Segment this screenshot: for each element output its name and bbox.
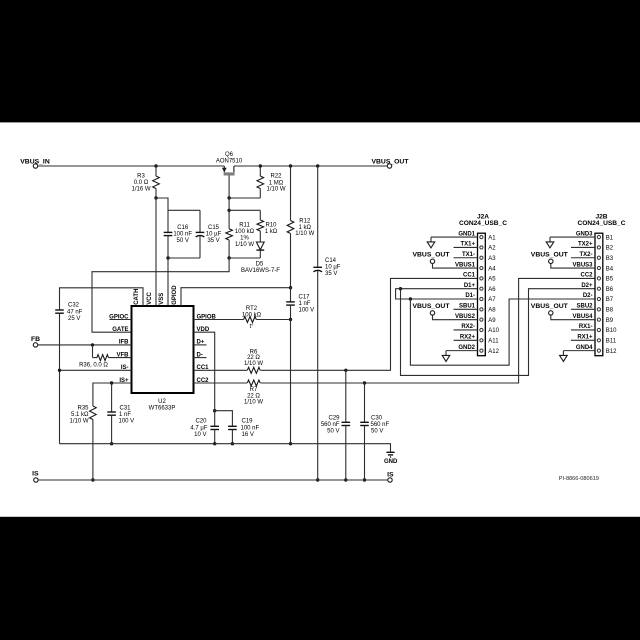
pin B7 of J2B xyxy=(597,297,600,300)
wire D- stub xyxy=(194,357,207,359)
pin A5 of J2A xyxy=(480,277,483,280)
wire VBUS2 xyxy=(433,315,478,320)
junction C17-RT2 xyxy=(289,318,292,321)
junction R35-IS rail xyxy=(91,478,94,481)
svg-text:GND1: GND1 xyxy=(458,231,475,237)
pin B3 of J2B xyxy=(597,256,600,259)
svg-text:TX2-: TX2- xyxy=(579,252,592,258)
svg-text:10 µF: 10 µF xyxy=(325,265,341,271)
junction CC1-C29 xyxy=(344,369,347,372)
svg-text:GND2: GND2 xyxy=(458,345,475,351)
svg-text:R11: R11 xyxy=(239,223,250,229)
svg-text:B2: B2 xyxy=(606,246,614,252)
svg-text:1 kΩ: 1 kΩ xyxy=(299,225,312,231)
pin A2 of J2A xyxy=(480,246,483,249)
svg-text:R22: R22 xyxy=(270,173,282,179)
svg-text:VBUS_OUT: VBUS_OUT xyxy=(412,251,450,258)
pin A9 of J2A xyxy=(480,318,483,321)
svg-text:1%: 1% xyxy=(240,236,249,242)
svg-text:IS: IS xyxy=(32,471,39,478)
svg-text:VBUS_OUT: VBUS_OUT xyxy=(531,303,569,310)
wire R10 branch top xyxy=(229,209,260,211)
svg-text:PI-8866-080619: PI-8866-080619 xyxy=(559,476,599,482)
wire R22 bottom to gate line xyxy=(229,197,260,199)
pin B12 of J2B xyxy=(597,349,600,352)
svg-text:B9: B9 xyxy=(606,318,614,324)
svg-text:1/10 W: 1/10 W xyxy=(266,186,285,192)
svg-text:1/10 W: 1/10 W xyxy=(235,242,254,248)
svg-text:CON24_USB_C: CON24_USB_C xyxy=(459,220,507,227)
wire Q6 gate stub xyxy=(228,176,230,199)
junction gate-R22 xyxy=(227,196,230,199)
junction FB-R36 xyxy=(91,343,94,346)
svg-text:GND: GND xyxy=(384,459,398,465)
svg-text:CON24_USB_C: CON24_USB_C xyxy=(577,220,625,227)
svg-text:R12: R12 xyxy=(299,218,311,224)
wire VSS line xyxy=(167,258,169,306)
pin B4 of J2B xyxy=(597,266,600,269)
svg-text:50 V: 50 V xyxy=(177,238,189,244)
svg-text:D2-: D2- xyxy=(583,293,593,299)
svg-text:R10: R10 xyxy=(265,223,277,229)
svg-text:VBUS1: VBUS1 xyxy=(455,262,476,268)
wire GND2 to ground xyxy=(446,350,478,352)
svg-text:B11: B11 xyxy=(606,339,617,345)
svg-text:D1-: D1- xyxy=(465,293,475,299)
svg-text:RX2-: RX2- xyxy=(461,324,475,330)
transistor Q6 xyxy=(223,166,225,172)
wire VBUS3 xyxy=(551,263,595,268)
wire VBUS_OUT rail xyxy=(234,165,387,167)
svg-text:U2: U2 xyxy=(158,399,166,405)
svg-text:A7: A7 xyxy=(488,297,496,303)
pin B5 of J2B xyxy=(597,277,600,280)
wire IS+ line xyxy=(93,383,132,404)
svg-text:B12: B12 xyxy=(606,349,617,355)
svg-text:560 nF: 560 nF xyxy=(321,422,340,428)
svg-text:VBUS3: VBUS3 xyxy=(572,262,593,268)
svg-text:BAV16WS-7-F: BAV16WS-7-F xyxy=(241,268,280,274)
junction rail-C14 xyxy=(316,164,319,167)
svg-text:GND4: GND4 xyxy=(576,345,593,351)
svg-text:t°: t° xyxy=(249,324,254,330)
pin A11 of J2A xyxy=(480,339,483,342)
wire stub TX1- xyxy=(454,257,478,259)
wire stub TX1+ xyxy=(454,246,478,248)
junction gate-R10 top xyxy=(227,209,230,212)
svg-text:C32: C32 xyxy=(68,303,80,309)
pin A10 of J2A xyxy=(480,328,483,331)
pin A4 of J2A xyxy=(480,266,483,269)
svg-text:B7: B7 xyxy=(606,297,614,303)
svg-text:16 V: 16 V xyxy=(242,432,254,438)
wire CC2 route to J2B xyxy=(261,278,596,383)
svg-text:1/16 W: 1/16 W xyxy=(131,187,150,193)
pin B10 of J2B xyxy=(597,328,600,331)
wire D1- to J2A A7 xyxy=(410,298,477,300)
wire stub RX1+ xyxy=(571,339,595,341)
wire D5 bottom to gate line xyxy=(229,257,260,259)
svg-text:10 V: 10 V xyxy=(194,432,206,438)
svg-text:5.1 kΩ: 5.1 kΩ xyxy=(71,412,89,418)
pin A6 of J2A xyxy=(480,287,483,290)
svg-text:R7: R7 xyxy=(250,387,258,393)
connector J2A CON24_USB_C body xyxy=(478,233,486,356)
svg-text:R3: R3 xyxy=(137,174,145,180)
svg-text:D2+: D2+ xyxy=(581,283,593,289)
svg-text:GND3: GND3 xyxy=(576,231,593,237)
junction rail-R3 xyxy=(154,164,157,167)
svg-text:C29: C29 xyxy=(328,415,340,421)
junction C14-IS rail xyxy=(316,478,319,481)
pin B9 of J2B xyxy=(597,318,600,321)
svg-text:A11: A11 xyxy=(488,339,499,345)
wire GPIOC stub xyxy=(109,319,131,321)
svg-text:100 nF: 100 nF xyxy=(241,425,260,431)
svg-text:100 nF: 100 nF xyxy=(173,232,192,238)
junction C31-GND rail xyxy=(110,442,113,445)
pin B8 of J2B xyxy=(597,308,600,311)
wire stub RX2+ xyxy=(454,339,478,341)
svg-text:A5: A5 xyxy=(488,277,496,283)
svg-text:AON7510: AON7510 xyxy=(216,159,243,165)
svg-text:C20: C20 xyxy=(195,419,207,425)
svg-text:TX1-: TX1- xyxy=(462,252,475,258)
ground arrow GND1 xyxy=(430,237,432,242)
wire FB to IFB xyxy=(38,344,132,346)
wire stub SBU2 xyxy=(571,308,595,310)
svg-text:TX2+: TX2+ xyxy=(578,242,593,248)
svg-text:SBU1: SBU1 xyxy=(459,304,476,310)
svg-text:A6: A6 xyxy=(488,287,496,293)
ground arrow GND3 xyxy=(549,237,551,242)
wire GPIOD route xyxy=(181,288,291,306)
svg-text:1 nF: 1 nF xyxy=(299,301,311,307)
junction rail-R12 xyxy=(289,164,292,167)
svg-text:50 V: 50 V xyxy=(327,428,339,434)
pin A3 of J2A xyxy=(480,256,483,259)
wire IS rail xyxy=(38,479,388,481)
svg-text:25 V: 25 V xyxy=(68,316,80,322)
svg-text:RX2+: RX2+ xyxy=(460,335,476,341)
diode D5 xyxy=(256,242,264,250)
ground arrow GND2 xyxy=(445,351,447,356)
svg-text:4.7 µF: 4.7 µF xyxy=(190,425,207,431)
ground arrow GND4 xyxy=(562,351,564,356)
wire gate line to U2 GATE xyxy=(92,258,229,332)
svg-text:1/10 W: 1/10 W xyxy=(295,231,314,237)
svg-text:B5: B5 xyxy=(606,277,614,283)
junction VDD-C20 xyxy=(213,409,216,412)
svg-text:FB: FB xyxy=(31,336,40,343)
svg-text:C31: C31 xyxy=(120,405,132,411)
junction C20-GND rail xyxy=(213,442,216,445)
svg-text:C17: C17 xyxy=(299,294,311,300)
wire D1+ to D2+ crosslink xyxy=(401,289,596,376)
junction D1- drop xyxy=(409,297,412,300)
wire VBUS1 xyxy=(433,263,478,268)
pin A7 of J2A xyxy=(480,297,483,300)
junction C19-GND rail xyxy=(231,442,234,445)
wire VDD route xyxy=(194,332,215,411)
svg-text:22 Ω: 22 Ω xyxy=(247,393,260,399)
svg-text:B4: B4 xyxy=(606,266,614,272)
wire GND3 to ground xyxy=(550,236,595,238)
wire CC1 route to J2A xyxy=(261,278,478,370)
junction RT2col-GND rail xyxy=(289,442,292,445)
wire GND rail xyxy=(60,444,391,452)
wire VCC line xyxy=(155,198,157,306)
wire VDD to C19 xyxy=(215,411,233,427)
wire D+ stub xyxy=(194,344,207,346)
svg-text:D1+: D1+ xyxy=(464,283,476,289)
svg-text:A1: A1 xyxy=(488,235,496,241)
connector J2B CON24_USB_C body xyxy=(595,233,603,356)
svg-text:C15: C15 xyxy=(208,225,220,231)
svg-text:VSS: VSS xyxy=(159,293,165,305)
svg-text:A9: A9 xyxy=(488,318,496,324)
junction IS+-C31 xyxy=(110,381,113,384)
svg-text:100 kΩ: 100 kΩ xyxy=(235,229,255,235)
junction IS--C32 xyxy=(58,369,61,372)
pin B2 of J2B xyxy=(597,246,600,249)
pin A8 of J2A xyxy=(480,308,483,311)
junction R12-GPIOD xyxy=(289,286,292,289)
wire stub RX2- xyxy=(454,329,478,331)
wire stub RX1- xyxy=(571,329,595,331)
svg-text:VBUS_OUT: VBUS_OUT xyxy=(531,251,569,258)
wire GND1 to ground xyxy=(431,236,478,238)
wire stub TX2- xyxy=(571,257,595,259)
svg-text:50 V: 50 V xyxy=(371,428,383,434)
svg-text:A10: A10 xyxy=(488,328,499,334)
svg-text:VCC: VCC xyxy=(147,291,153,304)
svg-text:B1: B1 xyxy=(606,235,614,241)
wire stub TX2+ xyxy=(571,246,595,248)
svg-text:VBUS_OUT: VBUS_OUT xyxy=(412,303,450,310)
junction C30-IS rail xyxy=(363,478,366,481)
svg-text:47 nF: 47 nF xyxy=(67,309,83,315)
pin A12 of J2A xyxy=(480,349,483,352)
junction gate-D5 bottom xyxy=(227,256,230,259)
svg-text:VBUS4: VBUS4 xyxy=(572,314,593,320)
svg-text:1/10 W: 1/10 W xyxy=(69,419,88,425)
wire C16 feed xyxy=(156,198,168,210)
junction rail-R22 xyxy=(259,164,262,167)
wire IS- to C32 line xyxy=(60,369,132,371)
svg-text:A12: A12 xyxy=(488,349,499,355)
svg-text:C14: C14 xyxy=(325,258,337,264)
svg-text:C19: C19 xyxy=(242,419,254,425)
ground GND symbol xyxy=(386,451,394,453)
wire stub SBU1 xyxy=(454,308,478,310)
svg-text:C30: C30 xyxy=(371,415,383,421)
svg-text:R36, 0.0 Ω: R36, 0.0 Ω xyxy=(79,363,108,369)
svg-text:SBU2: SBU2 xyxy=(576,304,593,310)
svg-text:0.0 Ω: 0.0 Ω xyxy=(134,180,149,186)
wire D1+/D1- short bend xyxy=(396,289,411,299)
pin A1 of J2A xyxy=(480,236,483,239)
svg-text:B8: B8 xyxy=(606,308,614,314)
svg-text:10 µF: 10 µF xyxy=(206,232,222,238)
junction C29-IS rail xyxy=(344,478,347,481)
svg-text:D5: D5 xyxy=(256,261,264,267)
wire C16-C15 top edge xyxy=(168,209,200,211)
svg-text:RX1-: RX1- xyxy=(579,324,593,330)
svg-text:1/10 W: 1/10 W xyxy=(244,400,263,406)
svg-text:35 V: 35 V xyxy=(207,238,219,244)
wire CATH route xyxy=(60,288,144,310)
junction CC2-C30 xyxy=(363,381,366,384)
svg-text:GPIOD: GPIOD xyxy=(172,285,178,305)
junction D1+ drop xyxy=(399,287,402,290)
wire VBUS_IN rail xyxy=(38,165,225,167)
svg-text:R35: R35 xyxy=(77,406,89,412)
pin B11 of J2B xyxy=(597,339,600,342)
svg-text:35 V: 35 V xyxy=(325,271,337,277)
wire C16-C15 bottom edge xyxy=(168,257,200,259)
svg-text:RX1+: RX1+ xyxy=(577,335,593,341)
wire GND4 to ground xyxy=(563,350,595,352)
svg-text:RT2: RT2 xyxy=(246,306,258,312)
op-amp U2 body (WT6633P) xyxy=(132,306,194,393)
svg-text:100 V: 100 V xyxy=(119,418,135,424)
svg-text:GATE: GATE xyxy=(112,327,128,333)
svg-text:A3: A3 xyxy=(488,256,496,262)
svg-text:CC1: CC1 xyxy=(463,273,476,279)
wire VBUS4 xyxy=(551,315,595,320)
svg-text:CC2: CC2 xyxy=(580,273,593,279)
wire RT2 node to GND rail xyxy=(290,320,292,444)
svg-text:560 nF: 560 nF xyxy=(371,422,390,428)
svg-text:A8: A8 xyxy=(488,308,496,314)
svg-text:1 nF: 1 nF xyxy=(119,412,131,418)
svg-text:1 kΩ: 1 kΩ xyxy=(265,229,278,235)
svg-text:TX1+: TX1+ xyxy=(460,242,475,248)
svg-text:WT6633P: WT6633P xyxy=(149,405,176,411)
svg-text:C16: C16 xyxy=(177,225,189,231)
svg-text:CATH: CATH xyxy=(134,289,140,305)
wire D1- to D2- crosslink xyxy=(410,299,595,365)
svg-text:B10: B10 xyxy=(606,328,617,334)
svg-text:A4: A4 xyxy=(488,266,496,272)
junction R3 bottom xyxy=(154,196,157,199)
svg-text:B6: B6 xyxy=(606,287,614,293)
junction VSS-C16 xyxy=(166,256,169,259)
svg-text:A2: A2 xyxy=(488,246,496,252)
svg-text:B3: B3 xyxy=(606,256,614,262)
pin B1 of J2B xyxy=(597,236,600,239)
wire D1+ to J2A A6 xyxy=(401,288,478,290)
pin B6 of J2B xyxy=(597,287,600,290)
svg-text:Q6: Q6 xyxy=(225,152,234,158)
svg-text:VBUS2: VBUS2 xyxy=(455,314,476,320)
svg-text:100 V: 100 V xyxy=(299,307,315,313)
